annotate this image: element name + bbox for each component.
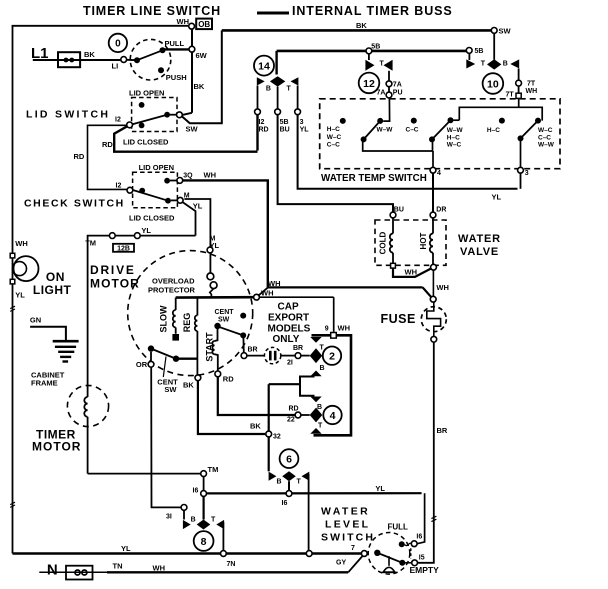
svg-text:H–C: H–C: [447, 134, 460, 141]
svg-text:OB: OB: [198, 20, 210, 29]
svg-text:LID CLOSED: LID CLOSED: [129, 214, 175, 223]
svg-text:RD: RD: [259, 127, 269, 134]
svg-text:BU: BU: [394, 207, 404, 214]
svg-text:ON: ON: [46, 270, 65, 284]
svg-text:I2: I2: [259, 119, 265, 126]
svg-text:EXPORT: EXPORT: [268, 313, 309, 324]
svg-text:12: 12: [363, 78, 375, 90]
svg-text:WH: WH: [204, 171, 217, 180]
svg-text:TN: TN: [113, 562, 123, 571]
svg-text:T: T: [320, 345, 325, 352]
svg-text:7T: 7T: [506, 92, 515, 99]
svg-text:WH: WH: [526, 88, 538, 95]
svg-text:CENT: CENT: [215, 309, 235, 316]
svg-text:N: N: [47, 562, 58, 579]
svg-text:DR: DR: [436, 207, 446, 214]
svg-text:MOTOR: MOTOR: [90, 277, 140, 291]
svg-text:WH: WH: [261, 289, 274, 298]
svg-text:I6: I6: [193, 488, 199, 495]
svg-text:FUSE: FUSE: [381, 312, 416, 326]
svg-text:7N: 7N: [227, 561, 236, 568]
svg-text:H–C: H–C: [327, 126, 340, 133]
svg-text:RD: RD: [102, 140, 113, 149]
svg-text:RD: RD: [74, 152, 85, 161]
svg-text:W–W: W–W: [538, 142, 555, 149]
svg-text:PROTECTOR: PROTECTOR: [148, 286, 196, 295]
svg-text:T: T: [297, 479, 302, 486]
svg-text:TIMER LINE SWITCH: TIMER LINE SWITCH: [83, 4, 221, 18]
svg-text:B: B: [277, 479, 282, 486]
svg-text:LIGHT: LIGHT: [33, 283, 72, 297]
svg-text:LI: LI: [112, 62, 119, 71]
svg-text:T: T: [380, 61, 385, 68]
svg-text:PU: PU: [393, 90, 403, 97]
svg-text:START: START: [205, 332, 215, 362]
svg-text:TM: TM: [85, 239, 96, 248]
svg-text:SW: SW: [218, 317, 230, 324]
svg-text:YL: YL: [300, 127, 310, 134]
svg-text:OR: OR: [136, 360, 148, 369]
svg-text:SW: SW: [499, 27, 512, 36]
svg-text:7: 7: [351, 545, 355, 552]
svg-text:14: 14: [258, 61, 270, 73]
svg-text:B: B: [191, 517, 196, 524]
svg-text:H–C: H–C: [487, 127, 500, 134]
svg-text:FRAME: FRAME: [31, 379, 58, 388]
svg-text:22: 22: [287, 417, 295, 424]
svg-text:BK: BK: [194, 82, 205, 91]
svg-text:I2: I2: [115, 117, 121, 124]
svg-text:SW: SW: [164, 385, 177, 394]
svg-text:C–C: C–C: [327, 142, 340, 149]
svg-text:3Q: 3Q: [183, 173, 193, 180]
svg-text:6: 6: [286, 454, 292, 466]
svg-text:T: T: [318, 423, 323, 430]
svg-text:LEVEL: LEVEL: [325, 519, 370, 531]
svg-text:RD: RD: [223, 375, 234, 384]
svg-text:YL: YL: [141, 226, 151, 235]
svg-text:T: T: [211, 517, 216, 524]
svg-text:6W: 6W: [196, 51, 208, 60]
svg-text:WH: WH: [15, 239, 27, 248]
svg-text:LID CLOSED: LID CLOSED: [123, 138, 169, 147]
svg-text:WH: WH: [177, 17, 190, 26]
svg-text:WATER: WATER: [321, 506, 370, 518]
svg-text:BR: BR: [248, 347, 258, 354]
svg-text:WATER TEMP SWITCH: WATER TEMP SWITCH: [321, 173, 427, 184]
svg-text:7A: 7A: [377, 90, 386, 97]
svg-text:8: 8: [201, 536, 207, 548]
svg-text:4: 4: [437, 170, 441, 177]
svg-text:WH: WH: [405, 268, 418, 277]
svg-text:I6: I6: [282, 500, 288, 507]
svg-text:HOT: HOT: [419, 232, 428, 249]
svg-text:W–C: W–C: [327, 134, 342, 141]
svg-text:GN: GN: [30, 316, 41, 325]
svg-text:PULL: PULL: [165, 39, 185, 48]
svg-text:B: B: [317, 404, 322, 411]
svg-text:WH: WH: [338, 324, 351, 333]
svg-text:OVERLOAD: OVERLOAD: [152, 277, 195, 286]
svg-text:WATER: WATER: [458, 233, 501, 245]
svg-text:YL: YL: [15, 291, 25, 300]
svg-text:I5: I5: [419, 555, 425, 562]
svg-text:EMPTY: EMPTY: [410, 565, 440, 575]
svg-text:BK: BK: [356, 21, 367, 30]
svg-text:W–C: W–C: [538, 127, 553, 134]
svg-text:T: T: [481, 61, 486, 68]
svg-text:PUSH: PUSH: [166, 73, 187, 82]
svg-text:W–C: W–C: [447, 142, 462, 149]
svg-text:YL: YL: [492, 193, 502, 202]
svg-text:5B: 5B: [371, 44, 380, 51]
svg-text:W–W: W–W: [377, 127, 394, 134]
svg-text:C–C: C–C: [538, 134, 551, 141]
svg-text:B: B: [320, 365, 325, 372]
svg-text:SLOW: SLOW: [159, 305, 169, 333]
svg-text:BK: BK: [84, 50, 95, 59]
svg-text:0: 0: [115, 39, 121, 50]
svg-text:I2: I2: [116, 183, 122, 190]
svg-text:BU: BU: [280, 127, 290, 134]
svg-text:RD: RD: [289, 406, 299, 413]
svg-text:32: 32: [273, 434, 281, 441]
svg-text:MOTOR: MOTOR: [32, 440, 81, 454]
svg-text:SWITCH: SWITCH: [321, 532, 375, 544]
svg-text:REG: REG: [182, 313, 192, 333]
svg-text:9: 9: [325, 326, 329, 333]
svg-text:3: 3: [525, 170, 529, 177]
svg-text:B: B: [503, 61, 508, 68]
svg-text:12B: 12B: [117, 246, 130, 253]
svg-text:L1: L1: [31, 45, 49, 62]
svg-text:LID OPEN: LID OPEN: [129, 89, 164, 98]
svg-text:BK: BK: [183, 381, 194, 390]
svg-text:M: M: [184, 193, 190, 200]
svg-text:5B: 5B: [475, 48, 484, 55]
svg-text:ONLY: ONLY: [273, 334, 300, 345]
svg-text:TM: TM: [208, 465, 219, 474]
svg-text:B: B: [266, 86, 271, 93]
svg-text:W–W: W–W: [447, 127, 464, 134]
svg-text:BR: BR: [293, 345, 303, 352]
svg-text:C–C: C–C: [406, 127, 419, 134]
svg-text:5B: 5B: [280, 119, 289, 126]
svg-text:CAP: CAP: [278, 302, 299, 313]
svg-text:2: 2: [329, 351, 335, 363]
svg-text:INTERNAL TIMER BUSS: INTERNAL TIMER BUSS: [292, 4, 453, 18]
svg-text:3: 3: [300, 119, 304, 126]
svg-text:3I: 3I: [166, 514, 172, 521]
svg-text:I6: I6: [416, 534, 422, 541]
svg-text:WH: WH: [268, 279, 281, 288]
svg-text:VALVE: VALVE: [460, 246, 499, 258]
svg-text:2I: 2I: [287, 360, 293, 367]
svg-text:7A: 7A: [393, 82, 402, 89]
svg-text:WH: WH: [436, 283, 449, 292]
svg-text:SW: SW: [186, 125, 199, 134]
svg-text:YL: YL: [193, 202, 203, 211]
svg-text:BR: BR: [437, 426, 448, 435]
svg-text:GY: GY: [336, 560, 346, 567]
svg-text:7T: 7T: [527, 81, 536, 88]
svg-text:10: 10: [487, 79, 499, 91]
svg-text:WH: WH: [153, 563, 166, 572]
svg-text:MODELS: MODELS: [268, 324, 311, 335]
svg-text:BK: BK: [250, 422, 261, 431]
svg-text:YL: YL: [121, 544, 131, 553]
svg-text:CHECK SWITCH: CHECK SWITCH: [24, 198, 125, 210]
svg-text:YL: YL: [210, 241, 220, 250]
svg-text:LID SWITCH: LID SWITCH: [26, 109, 110, 121]
svg-text:LID OPEN: LID OPEN: [139, 163, 174, 172]
svg-text:T: T: [287, 86, 292, 93]
svg-text:4: 4: [330, 410, 336, 422]
svg-text:COLD: COLD: [379, 231, 388, 254]
svg-text:YL: YL: [375, 484, 385, 493]
svg-text:DRIVE: DRIVE: [90, 263, 136, 277]
svg-text:FULL: FULL: [388, 523, 409, 532]
